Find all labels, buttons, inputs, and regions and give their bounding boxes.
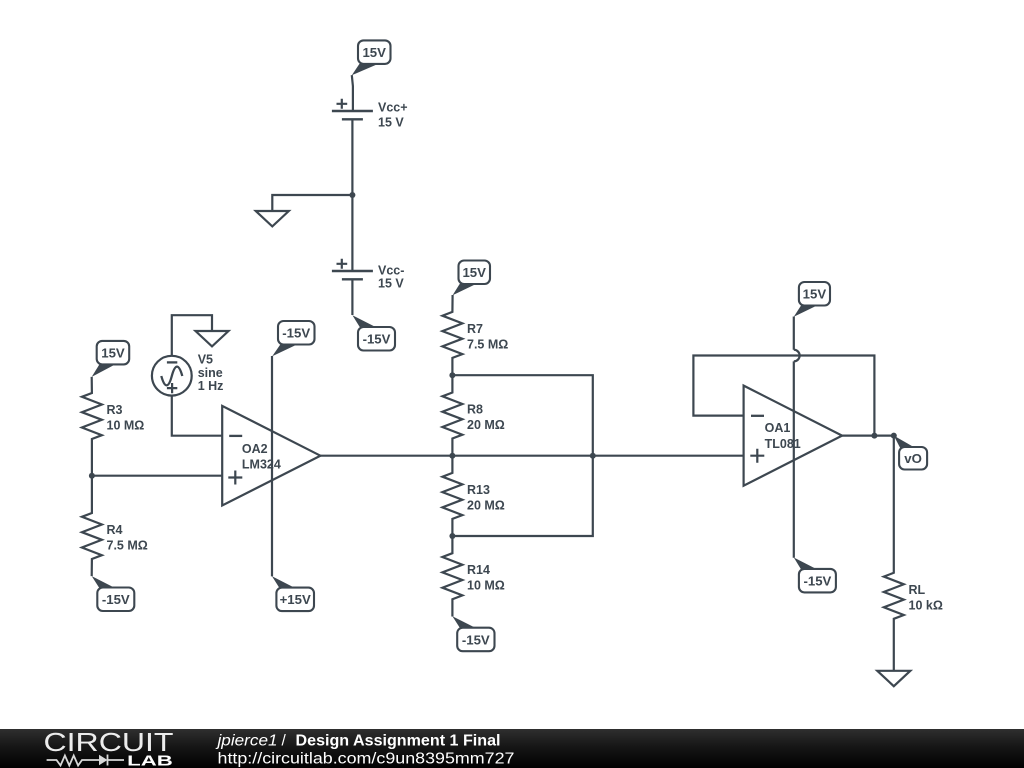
svg-text:10 MΩ: 10 MΩ (107, 419, 145, 433)
svg-text:Vcc+: Vcc+ (378, 101, 408, 115)
svg-text:-15V: -15V (803, 574, 831, 589)
svg-text:TL081: TL081 (765, 437, 801, 451)
svg-text:-15V: -15V (102, 592, 130, 607)
svg-text:15V: 15V (362, 45, 386, 60)
svg-text:7.5 MΩ: 7.5 MΩ (107, 539, 148, 553)
svg-text:sine: sine (198, 366, 223, 380)
svg-text:Design Assignment 1 Final: Design Assignment 1 Final (296, 733, 501, 750)
svg-text:jpierce1: jpierce1 (215, 733, 277, 750)
svg-text:R8: R8 (467, 403, 483, 417)
svg-text:-15V: -15V (282, 326, 310, 341)
svg-text:+15V: +15V (280, 592, 311, 607)
svg-text:R3: R3 (107, 403, 123, 417)
svg-text:R7: R7 (467, 322, 483, 336)
svg-text:7.5 MΩ: 7.5 MΩ (467, 337, 508, 351)
svg-text:RL: RL (909, 583, 926, 597)
svg-text:OA2: OA2 (242, 442, 268, 456)
svg-text:10 MΩ: 10 MΩ (467, 579, 505, 593)
svg-text:Vcc-: Vcc- (378, 264, 404, 278)
svg-text:vO: vO (904, 451, 922, 466)
svg-text:R14: R14 (467, 563, 490, 577)
svg-text:LM324: LM324 (242, 457, 281, 471)
svg-text:OA1: OA1 (765, 421, 791, 435)
svg-text:10 kΩ: 10 kΩ (909, 598, 943, 612)
svg-text:LAB: LAB (127, 753, 173, 768)
svg-text:15V: 15V (462, 265, 486, 280)
svg-text:20 MΩ: 20 MΩ (467, 498, 505, 512)
svg-text:R13: R13 (467, 483, 490, 497)
svg-text:15V: 15V (101, 346, 125, 361)
svg-text:-15V: -15V (462, 632, 490, 647)
svg-text:1 Hz: 1 Hz (198, 379, 224, 393)
svg-text:/: / (282, 733, 287, 750)
svg-text:15 V: 15 V (378, 277, 404, 291)
svg-text:15 V: 15 V (378, 115, 404, 129)
svg-text:-15V: -15V (363, 332, 391, 347)
svg-text:http://circuitlab.com/c9un8395: http://circuitlab.com/c9un8395mm727 (218, 750, 515, 767)
svg-text:20 MΩ: 20 MΩ (467, 418, 505, 432)
svg-text:R4: R4 (107, 523, 123, 537)
svg-text:15V: 15V (803, 287, 827, 302)
svg-text:V5: V5 (198, 353, 213, 367)
